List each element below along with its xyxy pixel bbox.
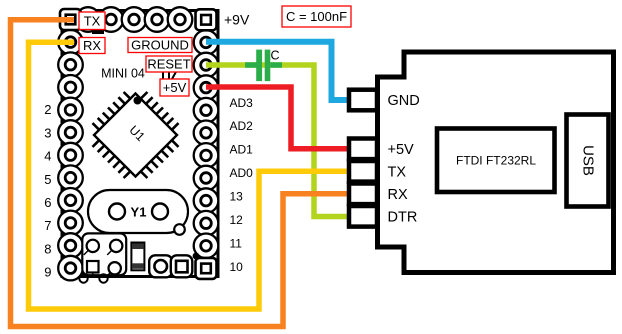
Arduino pin scallop outlines <box>58 7 218 280</box>
svg-text:RX: RX <box>388 187 408 203</box>
small silk rect below TX label <box>92 30 104 35</box>
FTDI pin labels GND +5V TX RX DTR <box>388 93 420 225</box>
svg-text:Y1: Y1 <box>131 205 147 220</box>
FTDI header pins <box>349 90 377 227</box>
svg-text:11: 11 <box>230 236 243 250</box>
microcontroller U1 (rotated QFP chip) <box>93 92 179 178</box>
Arduino pin holes <box>65 14 211 273</box>
Arduino +9V pad (pin outline, top-right corner) <box>196 9 217 30</box>
svg-text:FTDI FT232RL: FTDI FT232RL <box>456 154 536 168</box>
svg-text:12: 12 <box>230 213 244 227</box>
label +9V <box>224 12 250 28</box>
wire Arduino RESET to FTDI DTR (yellow-green) <box>206 65 348 217</box>
resistor footprint R1 <box>131 243 144 271</box>
power pad (square hole) <box>171 255 193 277</box>
wire Arduino +5V to FTDI +5V (red) <box>206 87 348 149</box>
svg-text:6: 6 <box>44 195 51 210</box>
svg-text:+5V: +5V <box>388 142 415 158</box>
svg-text:TX: TX <box>388 164 407 180</box>
label box GROUND <box>128 38 192 53</box>
svg-text:8: 8 <box>44 242 51 257</box>
test point dot <box>193 253 200 260</box>
svg-text:2: 2 <box>44 102 51 117</box>
svg-text:RESET: RESET <box>147 57 190 72</box>
FTDI adapter body outline <box>378 52 614 273</box>
svg-text:7: 7 <box>44 218 51 233</box>
Arduino TX pad (pin outline, top-left corner) <box>60 9 81 30</box>
svg-text:3: 3 <box>44 125 51 140</box>
svg-text:RX: RX <box>83 38 101 53</box>
svg-text:10: 10 <box>230 260 244 274</box>
left pin number labels 2-9 <box>44 102 51 280</box>
capacitor C (100nF, green) <box>245 50 282 82</box>
Arduino Mini board outline <box>62 11 218 277</box>
svg-text:C: C <box>270 48 279 62</box>
svg-text:DTR: DTR <box>388 209 418 225</box>
svg-text:USB: USB <box>580 145 597 176</box>
svg-text:GROUND: GROUND <box>131 38 189 53</box>
crystal Y1 (stadium footprint) <box>88 190 188 233</box>
svg-text:+9V: +9V <box>224 12 250 28</box>
svg-text:+5V: +5V <box>163 80 187 95</box>
silk marks behind RESET label <box>163 70 177 79</box>
via at crystal edge <box>174 224 185 235</box>
wire Arduino TX to FTDI RX (orange) <box>11 20 349 327</box>
svg-text:GND: GND <box>388 93 420 109</box>
programming header pads (2x2 block) <box>82 233 126 278</box>
svg-text:AD0: AD0 <box>230 166 254 180</box>
label box RX <box>79 38 105 54</box>
svg-text:TX: TX <box>84 13 101 28</box>
FTDI FT232RL chip box <box>437 129 555 193</box>
label box C = 100nF <box>282 6 351 27</box>
svg-text:13: 13 <box>230 190 244 204</box>
USB connector <box>567 115 609 207</box>
svg-text:4: 4 <box>44 149 51 164</box>
label MINI 04 <box>101 67 145 81</box>
label box +5V <box>160 79 189 96</box>
svg-text:5: 5 <box>44 172 51 187</box>
svg-text:AD2: AD2 <box>230 119 254 133</box>
power pad (round hole) <box>149 255 172 277</box>
Arduino pin 10 pad (bottom-right corner) <box>196 258 217 279</box>
svg-text:AD3: AD3 <box>230 96 254 110</box>
wire Arduino RX to FTDI TX (yellow) <box>29 42 349 309</box>
svg-text:9: 9 <box>44 265 51 280</box>
label C at capacitor <box>270 48 279 62</box>
right pin labels AD3-AD0, 13-10 <box>230 96 254 274</box>
svg-text:AD1: AD1 <box>230 143 254 157</box>
label box RESET <box>146 56 192 72</box>
solder bumps at bottom edge <box>79 274 107 282</box>
svg-text:C = 100nF: C = 100nF <box>286 9 347 24</box>
wire Arduino GROUND to FTDI GND (blue) <box>206 42 348 100</box>
svg-text:MINI 04: MINI 04 <box>101 67 145 81</box>
label box TX <box>79 12 105 30</box>
